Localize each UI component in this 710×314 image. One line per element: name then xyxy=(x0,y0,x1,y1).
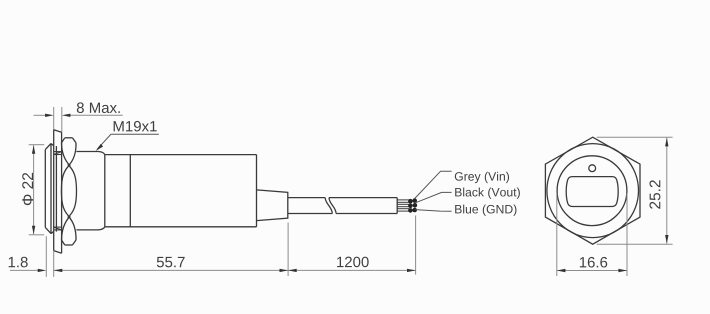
thread edges visible in panel gap xyxy=(54,152,62,230)
wire labels xyxy=(455,172,509,183)
cable with break symbol xyxy=(288,198,397,214)
front view: hex nut outline xyxy=(545,137,640,244)
stripped wire ends xyxy=(408,198,417,212)
mounting panel cross-section xyxy=(54,130,62,254)
wire leads xyxy=(397,200,409,211)
cable strain relief xyxy=(257,190,288,221)
housing body xyxy=(105,155,257,227)
front view: display window xyxy=(566,177,618,207)
front view: small LED dot xyxy=(589,165,596,172)
dimension 55.7 xyxy=(54,269,288,271)
dimension 1.8 xyxy=(10,236,54,277)
bezel flange (side view) xyxy=(45,144,56,234)
front view: bezel outer circle xyxy=(547,144,639,238)
dimension Phi22 xyxy=(29,145,45,235)
dimension 25.2 xyxy=(597,137,673,244)
threaded section xyxy=(76,152,104,230)
dimension 8 Max. xyxy=(34,107,123,132)
hex nut (side view, three face arcs) xyxy=(61,138,76,245)
dimension 1200 xyxy=(288,216,416,277)
thread label M19x1 with leader xyxy=(114,121,157,132)
wire label leaders xyxy=(415,171,452,211)
dimension 16.6 xyxy=(557,194,627,277)
front view: body circle xyxy=(557,156,627,226)
